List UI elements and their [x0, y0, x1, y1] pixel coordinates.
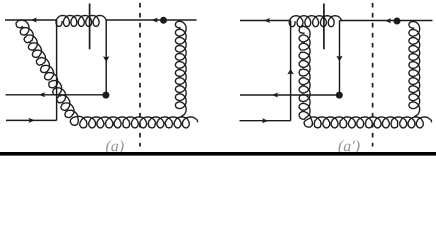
page rule: thick black bar at bottom [0, 152, 436, 156]
wire: middle quark line into vertex dot (a') [240, 94, 339, 96]
gluon: vertical coil hanging from top-right line (a') [409, 21, 420, 116]
wire: bottom-left quark line (a') [240, 120, 291, 122]
arrowhead left before top dot (a') [385, 18, 392, 23]
arrowhead left before top dot (a) [151, 18, 158, 23]
wire: right vertical quark line from top corner down to dot (a') [339, 21, 341, 95]
vertex dot on middle line (a') [336, 92, 343, 99]
label (a') [338, 140, 359, 155]
wire: left vertical quark line (a) [56, 20, 58, 120]
arrowhead right on bottom-left quark line [29, 118, 36, 123]
wire: top-right quark line after gluon loop (a') [340, 20, 433, 22]
arrowhead left on middle quark line (a') [272, 93, 279, 98]
vertex dot on middle line (a) [102, 92, 109, 99]
wire: top-left quark line, diagram (a) [5, 19, 57, 21]
gluon: vertical coil hanging from top-right line (a) [175, 21, 186, 116]
arrowhead right on bottom-left quark line (a') [262, 118, 269, 123]
arrowhead left on middle quark line [39, 92, 46, 97]
arrowhead up on left vertical line (a') [287, 69, 293, 75]
label (a) [106, 140, 124, 155]
wire: top-right quark line after gluon loop (a) [106, 19, 196, 21]
vertex dot on top-right line (a') [394, 18, 401, 25]
arrowhead down on right vertical line (a) [103, 56, 109, 62]
arrowhead down on right vertical line (a') [336, 56, 342, 62]
wire: middle quark line into vertex dot (a) [6, 94, 106, 96]
wire: left vertical quark line (a') [290, 21, 292, 121]
cut: vertical dashed line (a) [139, 3, 141, 147]
cut: vertical dashed line (a') [372, 3, 374, 147]
vertex dot on top-right line (a) [160, 17, 167, 24]
wire: right vertical quark line from top corner down to dot (a) [105, 20, 107, 94]
gluon: top horizontal coil (a) [56, 15, 106, 26]
gluon: bent coil, vertical from top coil turning into long bottom coil (a') [299, 26, 431, 128]
wire: short vertical line crossing top gluon (a) [89, 4, 91, 50]
wire: top-left quark line, diagram (a') [240, 20, 291, 22]
wire: bottom-left quark line (a) [6, 119, 57, 121]
gluon: top horizontal coil (a') [289, 16, 342, 27]
arrowhead left on top-left quark line [31, 18, 38, 23]
gluon: bent coil, diagonal from top line turning into long bottom coil (a) [16, 20, 198, 128]
arrowhead left on top-left quark line (a') [264, 18, 271, 23]
wire: short vertical line crossing top gluon (a') [323, 4, 325, 50]
